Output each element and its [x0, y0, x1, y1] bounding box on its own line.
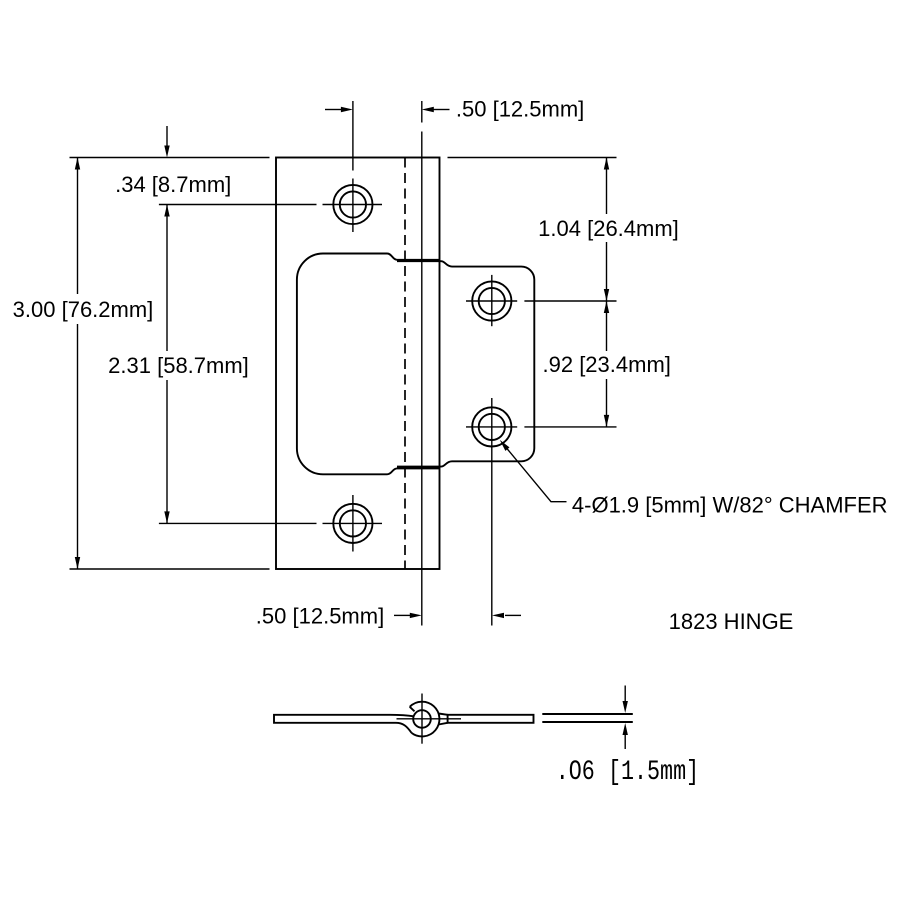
taper from knuckle to right bar [439, 714, 448, 715]
extension line: plate top, right side [448, 157, 617, 159]
left bar (left leaf edge view) [274, 715, 396, 723]
sheet end face [410, 707, 415, 712]
dimension 1.04 [26.4mm] line [606, 158, 608, 302]
pin hole inner circle [413, 710, 431, 728]
dimension .50 [12.5mm] bottom arrows [394, 614, 410, 616]
hole A (top-left) centerlines [159, 101, 382, 232]
right bar (right leaf edge view) [448, 715, 534, 723]
svg-text:.92 [23.4mm]: .92 [23.4mm] [543, 352, 671, 377]
hinge pin centerline [421, 101, 423, 626]
svg-text:1.04 [26.4mm]: 1.04 [26.4mm] [538, 216, 679, 241]
hole C (top-right) centerlines [466, 275, 617, 326]
svg-text:.50 [12.5mm]: .50 [12.5mm] [456, 97, 584, 122]
plate outline (left tall leaf) [276, 158, 440, 570]
extension line: plate bottom, left side [70, 568, 270, 570]
curl joins bar bottom [396, 723, 412, 733]
hidden dashed line (hinge barrel edge) [404, 158, 406, 570]
svg-text:.34 [8.7mm]: .34 [8.7mm] [115, 172, 231, 197]
leader line to hole D [506, 447, 567, 501]
svg-text:[1.5mm]: [1.5mm] [608, 756, 699, 788]
knuckle outer curl [410, 702, 440, 737]
svg-text:1823 HINGE: 1823 HINGE [669, 609, 794, 634]
hole D (bottom-right) centerlines [466, 398, 617, 626]
hole B circles [333, 504, 372, 543]
dimension 3.00 [76.2mm] line [77, 158, 79, 570]
extension line: plate top, left side [70, 157, 270, 159]
extension piece for thickness dim [542, 713, 633, 715]
hole C circles [472, 281, 511, 320]
svg-text:3.00 [76.2mm]: 3.00 [76.2mm] [13, 297, 154, 322]
knuckle crosshair [397, 694, 462, 744]
dimension .06 arrows [624, 686, 626, 702]
dimension .50 [12.5mm] top arrows [325, 109, 341, 111]
svg-text:2.31 [58.7mm]: 2.31 [58.7mm] [108, 353, 249, 378]
hole A circles [333, 185, 372, 224]
hole D circles [472, 407, 511, 446]
right tab leaf outline [397, 261, 534, 466]
svg-text:4-Ø1.9 [5mm] W/82° CHAMFER: 4-Ø1.9 [5mm] W/82° CHAMFER [572, 493, 888, 518]
hole B (bottom-left) centerlines [159, 495, 382, 552]
left leaf curl top surface [390, 715, 414, 717]
dimension 2.31 [58.7mm] line [166, 205, 168, 524]
dimension .92 [23.4mm] line [606, 301, 608, 427]
svg-text:.O6: .O6 [556, 756, 595, 788]
cutout in left leaf [297, 254, 440, 475]
svg-text:.50 [12.5mm]: .50 [12.5mm] [256, 603, 384, 628]
dimension .34 [8.7mm] arrow [166, 126, 168, 150]
